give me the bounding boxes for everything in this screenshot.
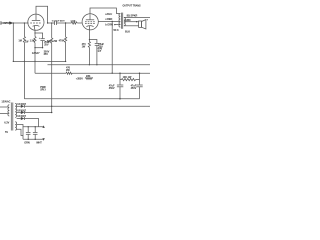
svg-text:UF4007: UF4007 [17,103,26,106]
node cathode split [34,32,35,33]
wire screen feed vertical [111,22,113,74]
node grid2 [65,22,66,23]
wire V1 plate to coupling node [36,6,48,23]
node screen tap [112,21,113,22]
svg-text:82K: 82K [47,40,52,43]
capacitor C1 cathode bypass 25uF [35,33,45,48]
wire cathode to ground rail [34,48,36,62]
svg-text:120VAC: 120VAC [1,101,10,104]
capacitor C6 heater [26,127,31,140]
node cathode2 ground [89,64,90,65]
resistor R4 470K grid leak [65,23,67,61]
svg-text:5K:8: 5K:8 [113,29,119,32]
capacitor C3 cathode bypass 2 [89,40,99,65]
svg-text:BLK: BLK [125,30,130,33]
ground return line [24,98,139,100]
svg-text:1.5K: 1.5K [30,40,35,43]
svg-text:GRN: GRN [24,142,30,145]
node plate junction [47,22,48,23]
node bypass2 ground [96,64,97,65]
node C5 top [139,73,140,74]
diode D2 UF4007 [17,111,52,114]
speaker LS1 [139,19,149,29]
wire cathode rejoin [35,47,43,49]
heater supply bottom rail [23,138,44,140]
triode V1 12AX7 [28,14,44,30]
svg-text:0.022uF 400V: 0.022uF 400V [52,19,65,22]
capacitor C4 filter 47uF [117,73,123,99]
svg-text:25V: 25V [98,45,103,48]
B+ screen rail [35,72,66,74]
resistor R9 feedback [85,77,93,79]
T1 secondary to speaker - [124,25,139,27]
T1 secondary to speaker + [124,21,139,23]
resistor R3 plate load 220K [51,23,53,113]
svg-text:1M: 1M [18,39,21,42]
svg-text:12AX7: 12AX7 [32,51,40,55]
svg-text:UF4007: UF4007 [17,115,26,118]
node R1 ground [24,61,25,62]
diode D1 UF4007 [17,105,150,108]
resistor R5 grid stopper [66,22,83,24]
T1 secondary top lead [124,16,150,18]
node R4 ground [65,61,66,62]
node cathode ground [34,61,35,62]
node cathode2 split [89,39,90,40]
winding lead 1 [17,125,23,140]
svg-text:a BLU: a BLU [105,13,112,16]
resistor R8 10K filter [120,79,140,81]
resistor R6 cathode 470 [88,30,90,65]
svg-text:INPUT: INPUT [3,22,11,25]
capacitor C5 filter 47uF [136,73,142,99]
svg-text:8Ω SPKR: 8Ω SPKR [127,14,138,17]
svg-text:1.5K: 1.5K [70,20,75,23]
svg-text:UF4007: UF4007 [17,110,26,113]
svg-text:6.3V: 6.3V [4,122,9,125]
pentode V2 6V6 [82,14,98,30]
ground rail G1 [13,60,65,62]
wire V2 plate to OT [90,8,116,14]
diode D3 UF4007 [17,117,39,127]
wire ground bus drop to PSU [23,61,25,98]
wire V2 screen to B+ [98,21,120,23]
node rectifier join top [51,106,52,107]
input jack J1 [0,22,13,25]
node screen at B rail [112,73,113,74]
resistor R1 1M grid leak [23,23,25,61]
svg-text:+285V: +285V [76,78,83,81]
svg-text:OUTPUT TRANS: OUTPUT TRANS [123,5,141,8]
node jack-ground [13,22,14,23]
output transformer T1 [119,13,125,29]
T2 primary leads [0,106,8,108]
resistor R2 cathode 1.5K [34,29,36,47]
ground rail G2 [48,64,151,66]
resistor R7 470 screen [66,72,150,74]
T1 lead tap [115,24,121,26]
wire input to grid V1 [2,22,9,24]
wire B-line riser [34,61,36,73]
wire jack ground drop [12,23,14,61]
node rectifier join bottom [51,112,52,113]
svg-text:10K 1W: 10K 1W [123,76,132,79]
svg-text:5V: 5V [5,131,8,134]
svg-text:450V: 450V [109,87,115,90]
T1 primary lead BLU [116,13,120,15]
svg-text:22K: 22K [86,75,91,78]
winding lead 2 [17,129,23,135]
svg-text:x RED: x RED [105,18,112,21]
svg-text:GT: GT [98,49,102,53]
svg-text:WHT: WHT [36,142,42,145]
capacitor C7 heater [33,127,38,140]
svg-text:SPLY: SPLY [40,89,46,92]
heater arrow down [42,138,44,141]
svg-text:GRN: GRN [125,19,131,22]
power transformer T2 [8,103,17,131]
svg-text:25V: 25V [44,43,49,46]
wire plate node to cap [48,22,55,24]
svg-text:25V: 25V [44,53,49,56]
heater supply top rail [23,126,44,128]
node R3 top [51,22,52,23]
svg-text:b GRN: b GRN [105,24,113,27]
node C4 ground [119,98,121,100]
capacitor C2 coupling 0.022uF [55,21,66,25]
svg-text:450V: 450V [131,87,137,90]
node R1 top [24,22,25,23]
heater arrow up [42,125,44,128]
node C4 top [119,73,120,74]
svg-text:470K: 470K [59,39,65,42]
